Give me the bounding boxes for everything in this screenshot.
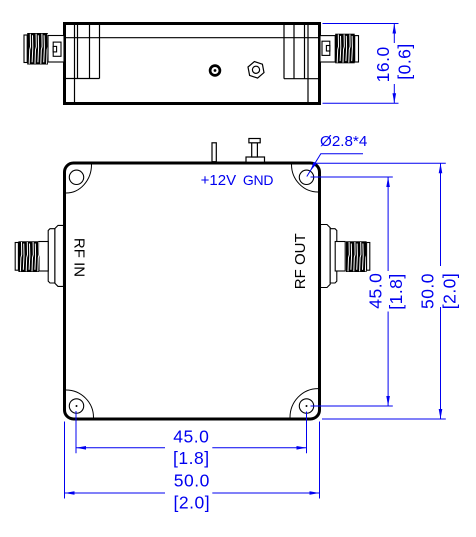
terminal GND (stud with cap) [246,139,265,163]
SMA connector J1 front view: barrel [39,242,48,272]
SMA connector J2 side view: barrel [320,36,335,62]
SMA connector J1 side view: end washer [24,35,27,63]
svg-text:50.0: 50.0 [417,273,437,309]
dimension 45.0 [1.8] bottom: arrowheads [76,446,307,450]
hole callout leader arrowhead [310,162,317,171]
screw S2 (hex nut) [248,62,264,79]
corner boss bottom-right [290,389,318,418]
mounting hole top-left [69,170,83,184]
SMA connector J2 front view: barrel [335,242,345,272]
svg-text:[1.8]: [1.8] [173,448,210,468]
SMA connector J2 side view: center pin recess [322,41,330,55]
SMA connector J2 side view: end washer [355,36,359,62]
side view lid seam line [66,37,318,39]
corner boss top-left [66,165,92,194]
svg-text:+12V: +12V [201,172,236,189]
SMA connector J1 front view: end washer [15,243,18,271]
dimension 45.0 [1.8] bottom: extension lines [76,411,307,453]
svg-text:GND: GND [243,172,274,188]
dimension 16.0 [0.6]: arrowheads [393,24,397,104]
corner boss top-right [292,165,319,193]
svg-text:RF OUT: RF OUT [292,233,309,289]
svg-text:50.0: 50.0 [174,471,210,491]
side view left panel seam lines [66,25,100,102]
corner boss bottom-left [66,390,94,418]
SMA connector J2 side view: threaded coupling [335,34,355,64]
svg-text:Ø2.8*4: Ø2.8*4 [320,133,367,150]
SMA connector J2 front view: end washer [367,243,370,271]
mounting hole top-right [299,170,313,184]
dimension 50.0 [2.0] bottom: dimension line [65,492,320,494]
side view right panel seam lines [284,25,318,102]
SMA connector J2 front view: flange plate [321,225,331,288]
dimension 50.0 [2.0] right: extension lines [313,163,446,419]
svg-text:[2.0]: [2.0] [440,273,460,310]
svg-text:[1.8]: [1.8] [386,273,406,310]
SMA connector J1 front view: inner plate [48,229,55,283]
dimension 50.0 [2.0] right: dimension line [440,163,442,419]
SMA connector J2 front view: threaded coupling [346,241,367,272]
screw S1 (pan head) [210,66,220,76]
SMA connector J1 front view: flange plate [55,225,64,286]
feedthrough pin +12V [212,143,216,162]
dimension 50.0 [2.0] bottom: arrowheads [65,491,320,495]
SMA connector J1 side view: barrel [48,36,64,63]
svg-text:RF IN: RF IN [70,238,87,277]
enclosure body front view outline [65,163,320,419]
dimension 50.0 [2.0] right: arrowheads [439,163,443,419]
svg-text:[0.6]: [0.6] [394,43,414,80]
dimension 45.0 [1.8] right: extension lines [311,177,393,406]
hole callout leader line [307,154,363,177]
svg-text:45.0: 45.0 [366,273,386,309]
dimension 16.0 [0.6]: dimension line [393,24,395,104]
dimension 45.0 [1.8] bottom: dimension line [76,447,307,449]
SMA connector J1 side view: center pin recess [53,42,61,56]
dimension 50.0 [2.0] bottom: extension lines [65,422,320,499]
svg-text:45.0: 45.0 [173,427,209,447]
mounting hole bottom-right [299,399,313,413]
SMA connector J1 front view: threaded coupling [18,241,39,272]
SMA connector J2 front view: inner plate [330,229,337,283]
svg-text:[2.0]: [2.0] [174,493,211,513]
dimension 45.0 [1.8] right: dimension line [387,177,389,406]
dimension 16.0 [0.6]: extension lines [323,24,399,104]
enclosure body side view outline [65,24,320,104]
svg-text:16.0: 16.0 [373,46,393,82]
dimension 45.0 [1.8] right: arrowheads [386,177,390,406]
mounting hole bottom-left [69,399,83,413]
SMA connector J1 side view: threaded coupling [27,33,48,65]
